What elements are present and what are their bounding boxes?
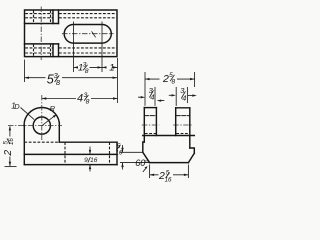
svg-text:9: 9 [84,157,88,164]
svg-text:R: R [50,104,56,113]
side view hole centerline prong 2 [173,124,192,126]
dimension 5/16 extension lines [120,152,149,162]
dimension 2-5/16 bottom [150,174,189,176]
dimension 5-3/8 [25,77,118,79]
top view hole centerline [40,7,42,61]
front view hidden slot edge right [109,142,111,164]
front view hidden slot edge left [64,142,66,164]
front view shoulder line [24,153,117,155]
top view inner slot edge lower [25,43,59,45]
top view hole hidden edge right [50,10,52,56]
dimension 9/16 [89,147,91,172]
side view prong 2 outer edge [189,108,191,148]
svg-text:2: 2 [162,73,169,85]
side view left chamfer [143,152,150,162]
front view hole circle [33,117,50,134]
top view slant break mark [92,31,96,37]
side view left step [143,142,145,152]
svg-text:8: 8 [172,78,176,85]
side view hole centerline prong 1 [142,124,160,126]
top view outline [25,10,118,57]
side view hole hidden bottom prong 1 [145,133,156,135]
side view base top edge [143,135,195,137]
svg-text:8: 8 [85,68,89,75]
dimension 2-5/16 left [9,126,11,166]
top view hidden groove line far 1 [25,13,116,15]
side view prong 1 slot line [145,115,156,117]
side view right step [190,148,195,153]
extension line bottom left [5,166,17,168]
svg-text:8: 8 [86,98,90,105]
side view prong 2 top [176,107,190,109]
dimension 1-3/8 [74,66,103,68]
top view boss edge vertical lower band [58,44,60,57]
extension lines above prongs [145,72,195,106]
side view prong 2 slot line [176,115,189,117]
top view hidden groove line far 2 [25,17,116,19]
dimension 1 [102,66,118,68]
top view prong end vertical upper band [52,10,54,24]
side view prong 1 inner edge [155,108,157,136]
svg-text:16: 16 [8,138,15,145]
dimension 5/16 [122,145,124,170]
top view obround horizontal centerline [62,33,114,35]
front view boss arc [24,108,59,126]
front view right edge [116,142,118,164]
dimension 2-5/16 bottom extensions [150,165,189,179]
dimension 3/4 left [138,97,164,100]
dimension 3/4 right [169,94,172,96]
extension line left of top view [24,60,26,83]
svg-text:4: 4 [150,92,154,101]
svg-text:60: 60 [135,158,145,168]
top view hidden groove line near 2 [25,52,116,54]
front view bottom edge [24,164,117,166]
front view left edge [23,126,25,165]
front view boss right edge [58,123,60,143]
front view hole vertical centerline [41,95,43,140]
svg-text:2: 2 [3,150,14,157]
front view hole horizontal centerline [8,125,62,127]
side view hole hidden bottom prong 2 [176,133,189,135]
side view prong 2 inner edge [175,108,177,136]
dimension 2-5/8 [145,78,195,80]
leader for R [43,115,56,125]
side view prong 1 outer edge [143,108,145,142]
top view obround slot [64,25,111,44]
svg-text:16: 16 [115,150,123,157]
svg-text:16: 16 [90,157,98,164]
top view inner slot edge upper [25,23,59,25]
front view base top edge [59,141,117,143]
leader for 1 D [21,108,35,120]
svg-text:D: D [14,102,20,111]
top view hole hidden edge left [33,10,35,56]
front view hidden base top behind boss [24,141,59,143]
side view bottom edge [150,162,189,164]
svg-text:4: 4 [182,94,186,103]
svg-text:1: 1 [109,63,114,74]
top view boss edge vertical upper band [58,10,60,24]
side view right chamfer [188,153,194,162]
top view obround left centerline [73,22,75,73]
top view hidden groove line near 1 [25,47,116,49]
side view prong 1 top [144,107,156,109]
extension line right of top view [117,58,119,103]
dimension 4-3/8 [42,98,118,100]
top view obround right centerline [101,22,103,73]
top view prong end vertical lower band [52,44,54,57]
leader for 60 degrees [143,167,147,172]
svg-text:4: 4 [77,93,83,105]
